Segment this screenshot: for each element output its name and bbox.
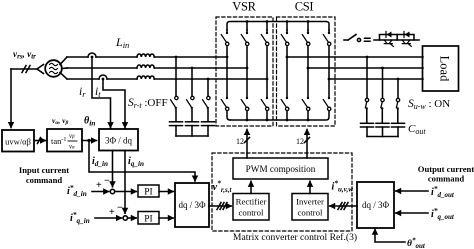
wire CSI leg u upper <box>286 30 288 33</box>
wire dc-link top bus <box>227 22 329 31</box>
wire CSI leg w lower <box>328 79 330 97</box>
svg-text:control: control <box>298 208 323 218</box>
gate signal arrow CSI <box>306 130 308 159</box>
legend switch symbol <box>344 39 348 41</box>
wire VSR leg s upper <box>246 30 248 33</box>
wire switch to capacitor t <box>207 110 209 122</box>
junction bottom bus / CSI leg v <box>307 119 310 122</box>
switch CSI u-phase lower <box>281 97 289 111</box>
output filter bottom bus <box>367 136 398 138</box>
junction phase r / filter tap <box>175 56 178 59</box>
wire CSI leg u to bottom bus <box>286 111 288 120</box>
junction phase v / output filter tap <box>381 67 384 70</box>
wire i_d_in feedback <box>112 151 114 187</box>
svg-text:Matrix converter control Ref.(: Matrix converter control Ref.(3) <box>233 232 357 243</box>
capacitor C_out phase u <box>361 122 374 124</box>
svg-text:PWM composition: PWM composition <box>246 164 316 174</box>
wire stub bus to VSR leg s <box>246 22 248 31</box>
wire CSI leg v to phase node <box>307 46 309 68</box>
wire CSI leg v to bottom bus <box>307 111 309 120</box>
switch VSR s-phase upper <box>241 32 249 46</box>
wire theta*_out <box>375 229 405 242</box>
wire output filter tap u down <box>366 57 368 98</box>
voltage sense wire with double slash <box>11 68 37 70</box>
switch S_u-w phase w (ON) <box>396 98 399 109</box>
phase line s (input) <box>67 67 137 69</box>
wire VSR leg r to phase node <box>226 46 228 57</box>
probe fork <box>37 65 44 74</box>
phase line r (input) <box>67 56 88 58</box>
junction top bus / CSI leg u <box>286 20 289 23</box>
switch VSR t-phase lower <box>261 97 269 111</box>
node phase r / VSR leg <box>226 56 229 59</box>
current sensor i_r <box>88 53 96 57</box>
wire VSR leg t upper <box>266 30 268 33</box>
wire CSI leg v upper <box>307 30 309 33</box>
wire i_r sense down to 3phi/dq <box>92 57 111 128</box>
svg-text:PI: PI <box>144 188 152 198</box>
wire junction2 to PI2 <box>128 217 137 219</box>
wire dq/3phi right to inverter control with slashes <box>330 205 357 207</box>
wire CSI leg u lower <box>286 57 288 97</box>
wire dc-link bottom bus <box>230 111 329 120</box>
legend igbt 2 <box>402 40 411 46</box>
switch CSI u-phase upper <box>281 32 289 46</box>
wire switch to capacitor r <box>175 110 177 122</box>
svg-text:uvw/αβ: uvw/αβ <box>5 137 31 147</box>
switch VSR s-phase lower <box>241 97 249 111</box>
capacitor C_in phase r <box>170 121 183 123</box>
wire CSI leg v lower <box>307 68 309 97</box>
wire filter tap t down <box>207 79 209 97</box>
wire VSR leg r to bottom bus <box>227 111 230 120</box>
capacitor C_out phase w <box>392 122 405 124</box>
wire junction1 to PI1 <box>115 191 137 193</box>
legend bidirectional switch circuit <box>374 39 419 41</box>
wire VSR leg s to phase node <box>246 46 248 68</box>
wire stub bus to CSI leg u <box>286 22 288 31</box>
node phase w / CSI leg <box>328 78 331 81</box>
junction phase s / filter tap <box>191 67 194 70</box>
wire VSR leg t to bottom bus <box>266 111 268 120</box>
switch VSR r-phase upper <box>221 32 229 46</box>
svg-text:−: − <box>104 176 110 187</box>
svg-text:12: 12 <box>296 137 304 146</box>
junction phase t / filter tap <box>207 78 210 81</box>
junction bottom bus / CSI leg u <box>286 119 289 122</box>
svg-text:Output current: Output current <box>418 164 474 174</box>
svg-text:12: 12 <box>236 137 244 146</box>
wire i_t sense down to 3phi/dq <box>103 79 125 128</box>
switch CSI w-phase upper <box>323 32 331 46</box>
node phase v / CSI leg <box>307 67 310 70</box>
3phi/dq box <box>99 129 138 151</box>
wire VSR leg s lower <box>246 68 248 97</box>
svg-text:−: − <box>117 203 123 214</box>
wire phase t to VSR <box>154 78 267 80</box>
svg-text:+: + <box>109 207 115 218</box>
switch CSI v-phase upper <box>302 32 310 46</box>
source circle <box>45 60 62 77</box>
switch S_u-w phase v (ON) <box>381 98 384 109</box>
wire i*_d_out <box>396 190 428 192</box>
wire VSR leg s to bottom bus <box>246 111 248 120</box>
summing junction 1 <box>92 191 109 193</box>
tan-1 box <box>47 129 82 152</box>
wire output filter tap v down <box>382 68 384 98</box>
junction top bus / VSR leg t <box>266 20 269 23</box>
wire switch to capacitor w <box>397 109 399 123</box>
wire down to uvw/ab box <box>10 69 12 128</box>
svg-text:Load: Load <box>438 56 452 82</box>
legend diode 2 <box>405 32 410 38</box>
inductor L_in phase t <box>137 76 154 79</box>
PWM composition box <box>233 158 328 179</box>
switch VSR t-phase upper <box>261 32 269 46</box>
capacitor C_in phase t <box>202 121 215 123</box>
dq/3phi box left <box>175 183 209 227</box>
junction top bus / CSI leg v <box>307 20 310 23</box>
inductor L_in phase r <box>137 54 154 57</box>
phase line t (input) <box>67 78 99 80</box>
current sensor i_t <box>99 75 107 79</box>
wire tan to 3phi/dq with node <box>82 140 97 142</box>
wire filter tap r down <box>175 57 177 97</box>
wire switch to capacitor u <box>366 109 368 123</box>
node phase t / VSR leg <box>266 78 269 81</box>
junction bottom bus / VSR leg t <box>266 119 269 122</box>
PI box 2 <box>138 212 159 225</box>
wire i_q_in feedback <box>124 151 126 214</box>
output phase line w <box>329 78 423 80</box>
node phase s / VSR leg <box>246 67 249 70</box>
svg-text:command: command <box>26 175 63 185</box>
CSI dashed box <box>277 17 336 126</box>
svg-text:vα: vα <box>69 144 75 151</box>
wire stub bus to VSR leg t <box>266 22 268 31</box>
PI box 1 <box>138 185 159 197</box>
node phase u / CSI leg <box>286 56 289 59</box>
svg-text:VSR: VSR <box>232 0 256 14</box>
wire phase r to VSR <box>154 56 227 58</box>
svg-text:command: command <box>428 174 465 184</box>
switch S_r-t phase t (OFF) <box>203 96 211 109</box>
wire output filter tap w down <box>397 79 399 98</box>
svg-text:vβ: vβ <box>69 133 75 140</box>
wire PI2 to dq/3phi <box>159 217 173 219</box>
wire rectifier to PWM <box>250 181 252 193</box>
rectifier control box <box>233 194 269 221</box>
gate signal arrow VSR <box>246 130 248 159</box>
VSR dashed box <box>216 17 273 126</box>
input filter bottom bus <box>176 135 208 137</box>
theta wire down and to dq/3phi <box>89 141 195 182</box>
wire VSR leg t to phase node <box>266 46 268 79</box>
wire dq/3phi to rectifier control with slashes <box>209 205 231 207</box>
svg-text:control: control <box>239 208 264 218</box>
dq/3phi box right <box>357 182 394 228</box>
svg-text:3Φ / dq: 3Φ / dq <box>105 136 133 146</box>
switch CSI v-phase lower <box>302 97 310 111</box>
svg-text:Rectifier: Rectifier <box>236 197 267 207</box>
switch VSR r-phase lower <box>221 97 229 111</box>
inductor L_in phase s <box>137 65 154 68</box>
wire switch to capacitor v <box>381 109 383 123</box>
svg-text:Input current: Input current <box>19 165 69 175</box>
wire filter tap s down <box>191 68 193 97</box>
junction phase w / output filter tap <box>397 78 400 81</box>
junction bottom bus / VSR leg s <box>246 119 249 122</box>
output phase line v <box>308 67 423 69</box>
svg-text:CSI: CSI <box>295 0 314 14</box>
wire VSR leg r upper <box>226 30 228 33</box>
legend diode 1 <box>387 32 392 38</box>
legend igbt 1 <box>384 40 393 46</box>
summing junction 2 <box>95 217 122 219</box>
switch S_r-t phase r (OFF) <box>171 96 179 109</box>
label uvw/ab box <box>2 130 34 152</box>
wire stub bus to CSI leg v <box>307 22 309 31</box>
inverter control box <box>292 194 328 221</box>
wire CSI leg w upper <box>328 30 330 33</box>
junction phase u / output filter tap <box>366 56 369 59</box>
capacitor C_in phase s <box>186 121 199 123</box>
svg-text:PI: PI <box>144 215 152 225</box>
switch CSI w-phase lower <box>323 97 331 111</box>
wire switch to capacitor s <box>191 110 193 122</box>
matrix converter control dashed box <box>212 153 352 231</box>
connector uvw to tan box <box>34 140 46 142</box>
svg-text:+: + <box>96 180 102 191</box>
load box <box>423 46 459 91</box>
svg-text:dq / 3Φ: dq / 3Φ <box>178 200 206 210</box>
wire: source fan to three phase lines <box>60 57 67 65</box>
wire VSR leg r lower <box>226 57 228 97</box>
switch S_r-t phase s (OFF) <box>187 96 195 109</box>
switch S_u-w phase u (ON) <box>365 98 368 109</box>
wire i*_q_out <box>396 212 428 214</box>
wire inverter to PWM <box>309 181 311 193</box>
junction top bus / VSR leg s <box>246 20 249 23</box>
wire PI1 to dq/3phi <box>159 191 173 193</box>
svg-text:Inverter: Inverter <box>296 197 324 207</box>
wire VSR leg t lower <box>266 79 268 97</box>
wire CSI leg u to phase node <box>286 46 288 57</box>
output phase line u <box>287 56 423 58</box>
wire CSI leg w to phase node <box>328 46 330 79</box>
svg-text:dq / 3Φ: dq / 3Φ <box>362 200 390 210</box>
legend equals <box>365 38 371 41</box>
capacitor C_out phase v <box>376 122 389 124</box>
